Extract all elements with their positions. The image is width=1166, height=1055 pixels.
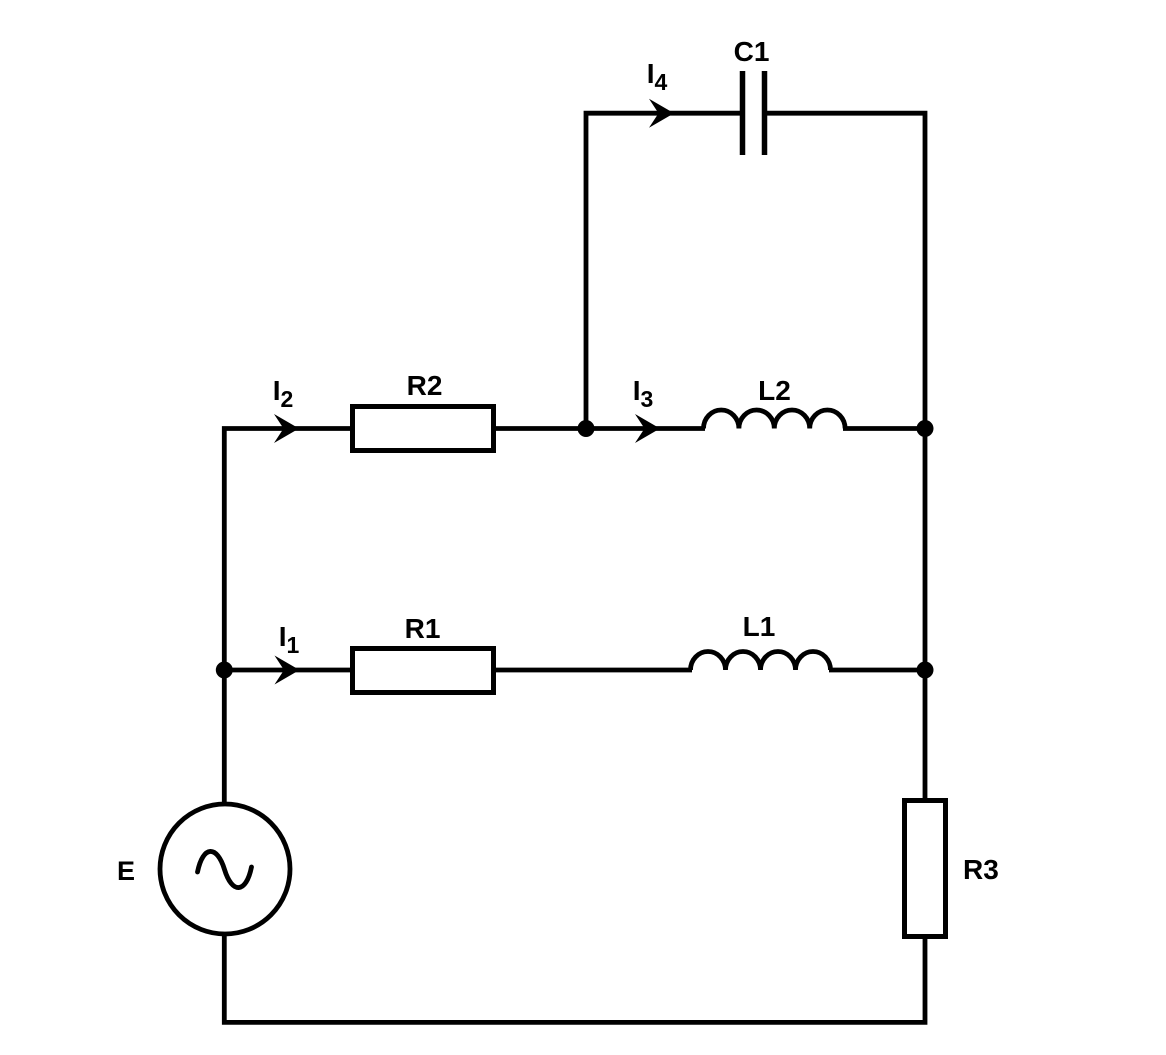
arrow I4: [649, 99, 674, 128]
AC source sine symbol: [198, 851, 252, 887]
arrow I3: [635, 414, 660, 443]
node junction at I4 branch on upper row: [578, 420, 595, 437]
wire: upper-left branch, node E left rail (352,428) to (224,428) down to source top: [224, 429, 352, 809]
AC source E circle: [160, 804, 290, 934]
svg-text:L1: L1: [743, 611, 776, 642]
resistor R2: [353, 407, 494, 451]
node junction lower left: [216, 662, 233, 679]
arrow I1: [275, 656, 300, 685]
inductor L2: [704, 410, 846, 429]
svg-text:L2: L2: [758, 375, 791, 406]
wire: capacitor C1 right plate to top-right corner, right rail down to R3 top: [766, 113, 925, 798]
resistor R1: [353, 649, 494, 693]
wire: L2 right to right rail: [843, 426, 925, 431]
wire: lower row left, node to R1 left: [224, 668, 352, 673]
svg-text:E: E: [117, 856, 135, 886]
svg-text:R3: R3: [963, 854, 999, 885]
wire: R2 right to L2 left: [494, 426, 705, 431]
svg-text:C1: C1: [734, 36, 770, 67]
svg-text:R2: R2: [407, 370, 443, 401]
node junction lower right: [917, 662, 934, 679]
svg-text:R1: R1: [405, 613, 441, 644]
wire: source bottom down, bottom rail, up to R3 bottom: [224, 930, 925, 1022]
wire: L1 right to right rail: [829, 668, 925, 673]
wire: R1 right to L1 left: [494, 668, 692, 673]
capacitor C1: [743, 71, 765, 155]
wire: I4 branch riser and top-left segment to capacitor C1 left plate: [586, 113, 741, 428]
resistor R3: [905, 801, 946, 937]
inductor L1: [691, 652, 831, 671]
node junction upper right: [917, 420, 934, 437]
arrow I2: [274, 414, 299, 443]
